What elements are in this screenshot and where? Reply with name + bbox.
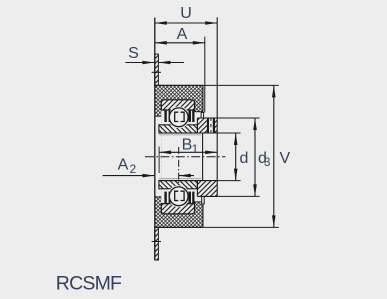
collar tab top: [201, 113, 204, 119]
inner ring bore chamfer line bottom: [159, 178, 201, 180]
housing right wall window: [195, 112, 204, 202]
collar eccentric bore edge line between halves: [202, 133, 204, 181]
svg-text:A: A: [118, 157, 129, 174]
ball top: [169, 108, 188, 127]
housing cavity white cutout: [161, 100, 194, 214]
svg-text:d: d: [240, 150, 249, 167]
ball white margin top: [168, 106, 190, 128]
dimension d3: [254, 118, 256, 196]
inner ring bore chamfer line top: [159, 134, 201, 136]
flange strip bottom section: [155, 227, 159, 260]
dimension V: [273, 85, 275, 227]
dimension A2: [103, 175, 194, 177]
A extension line right: [204, 37, 206, 113]
outer ring bottom band: [161, 204, 194, 214]
housing left wall window: [156, 116, 162, 197]
svg-text:3: 3: [264, 157, 270, 169]
svg-text:1: 1: [192, 142, 199, 156]
seal bars top bearing: [164, 110, 194, 123]
housing left wall cut edge bottom: [156, 196, 162, 198]
svg-text:A: A: [177, 26, 188, 43]
housing cross-section block: [155, 85, 203, 227]
inner ring top band: [159, 125, 198, 133]
housing right wall cut edge bottom: [195, 201, 203, 203]
extension line d3 top: [217, 117, 259, 119]
seal bars bottom bearing: [164, 192, 194, 205]
ball center plane line (dash-dot): [178, 147, 180, 183]
dimension S: [125, 62, 184, 64]
outer ring top band: [161, 100, 194, 110]
dimension B1: [159, 151, 217, 153]
dimension A: [155, 42, 205, 44]
collar right face / U extension line: [216, 17, 218, 196]
ball bottom: [169, 187, 188, 206]
extension line V top: [203, 84, 279, 86]
svg-text:2: 2: [129, 162, 136, 176]
ball white margin bottom: [168, 185, 190, 207]
housing right edge lower: [202, 202, 204, 228]
svg-text:S: S: [128, 45, 139, 62]
housing right wall cut edge top: [195, 111, 203, 113]
inner ring bottom band: [159, 181, 198, 189]
cage mark bottom ball: [175, 191, 184, 200]
shaft axis center line (dash-dot): [145, 156, 225, 158]
collar tab bottom: [202, 196, 205, 204]
svg-text:U: U: [180, 5, 192, 22]
locking collar bottom (plain section): [159, 181, 217, 197]
svg-text:RCSMF: RCSMF: [56, 272, 122, 294]
dimension U: [155, 22, 217, 24]
extension line d bottom: [217, 180, 240, 182]
extension line V bottom: [203, 226, 279, 228]
housing right edge upper: [202, 85, 204, 111]
cage mark top ball: [175, 112, 184, 121]
flange mounting face line: [154, 18, 156, 260]
flange bolt hole tick top: [152, 71, 161, 73]
housing bottom edge: [155, 226, 203, 228]
extension line d3 bottom: [217, 195, 259, 197]
svg-text:V: V: [280, 150, 291, 167]
housing top edge: [155, 84, 203, 86]
flange strip top section: [155, 54, 159, 85]
extension line d top: [217, 132, 240, 134]
dimension d: [235, 133, 237, 181]
housing left wall cut edge top: [156, 115, 162, 117]
flange bolt hole tick bottom: [152, 241, 161, 243]
locking collar top (with set screw): [159, 118, 217, 133]
